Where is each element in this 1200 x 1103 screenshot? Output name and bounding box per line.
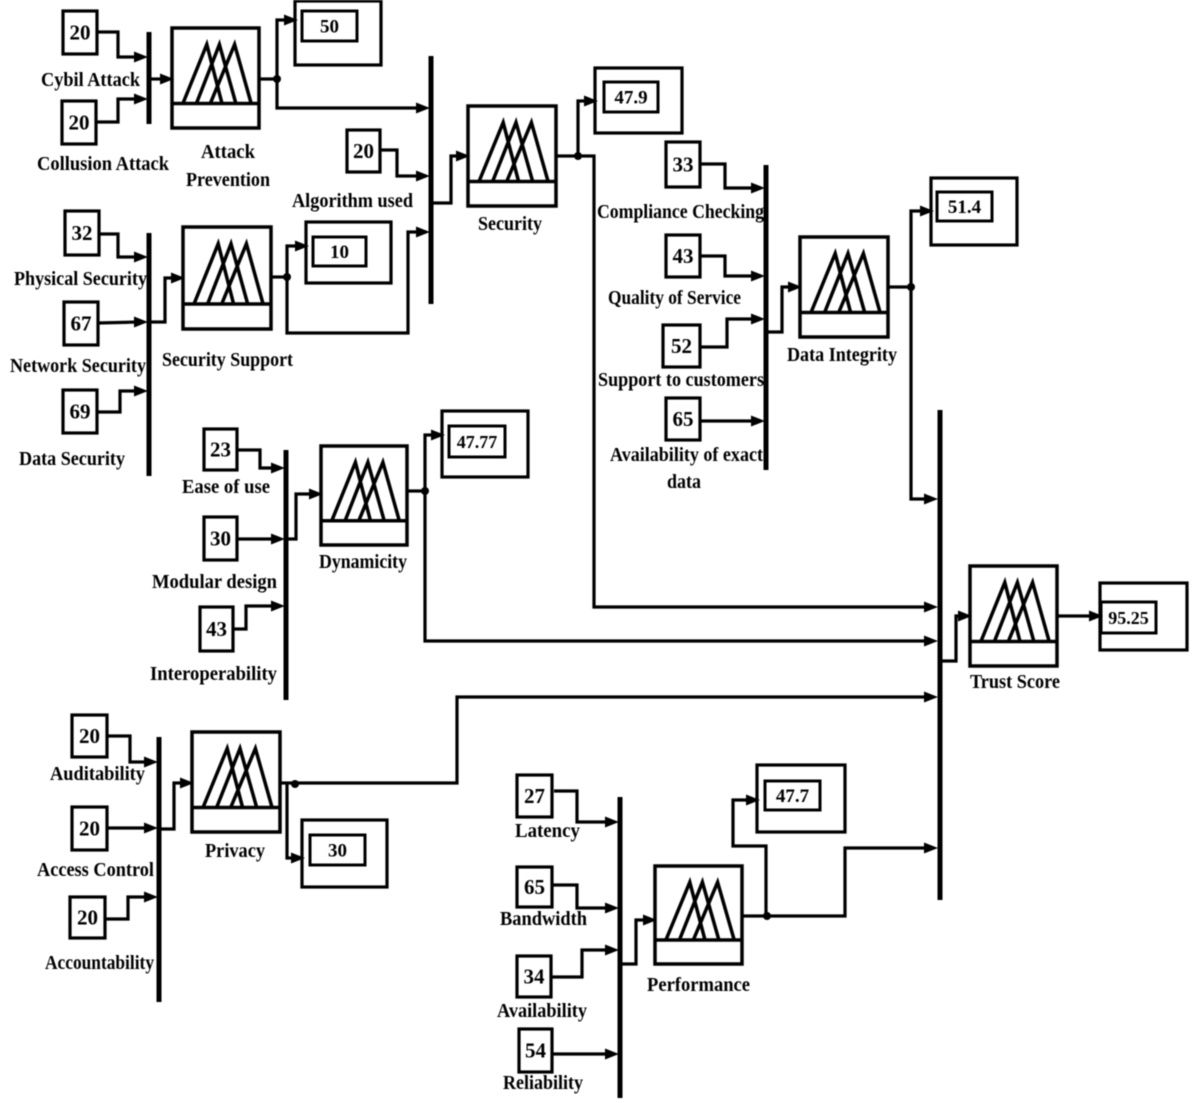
svg-text:10: 10 (330, 242, 349, 263)
wire: 34 Availability to mux (551, 950, 609, 977)
svg-text:Privacy: Privacy (205, 840, 265, 862)
svg-text:Accountability: Accountability (45, 952, 154, 974)
input box 69 (Data Security) (63, 390, 97, 433)
wire: Data Integrity to Trust Score mux (911, 287, 928, 499)
junction: Performance output (763, 912, 771, 920)
input box 54 (Reliability) (519, 1029, 552, 1072)
svg-text:Performance: Performance (647, 974, 750, 996)
svg-text:27: 27 (524, 784, 545, 808)
wire: Privacy output (280, 781, 295, 784)
svg-text:34: 34 (524, 965, 546, 989)
svg-text:Support to customers: Support to customers (598, 369, 764, 391)
fuzzy inference block: Dynamicity U5 (321, 446, 407, 545)
wire: Dynamicity output (407, 489, 425, 492)
svg-text:32: 32 (72, 221, 93, 245)
wire: mux to Security Support (151, 278, 175, 322)
wire: 65 Availability of exact data to mux (700, 419, 755, 422)
junction: Data Integrity output (907, 283, 915, 291)
svg-text:Prevention: Prevention (186, 169, 270, 191)
svg-text:Latency: Latency (515, 820, 580, 842)
svg-text:43: 43 (206, 617, 227, 641)
display box 10 (Security Support output) (306, 222, 391, 283)
wire: Trust Score to display 95.25 (1057, 614, 1093, 617)
wire: to display 50 (277, 20, 288, 79)
mux bar: Security inputs (429, 56, 434, 304)
wire: mux to Performance (622, 920, 647, 964)
fuzzy inference block: Privacy U6 (192, 732, 280, 832)
display box 47.7 (Performance output) (757, 765, 845, 832)
junction: Security output (574, 152, 582, 160)
wire: to display 10 (287, 246, 299, 277)
svg-text:Compliance Checking: Compliance Checking (597, 201, 764, 223)
wire: 20 Access Control to mux (107, 826, 148, 829)
wire: Trust Score mux to Trust Score block (941, 616, 962, 661)
svg-text:Access Control: Access Control (37, 859, 154, 881)
svg-text:Reliability: Reliability (503, 1072, 583, 1094)
wire: mux to Dynamicity (288, 494, 313, 539)
svg-text:69: 69 (70, 400, 91, 424)
svg-text:50: 50 (320, 17, 339, 38)
wire: 65 Bandwidth to mux (553, 885, 609, 908)
display box 30 (Privacy output) (302, 820, 387, 887)
wire: Security to Trust Score mux (578, 156, 928, 607)
mux bar: Data Integrity inputs (764, 165, 769, 470)
svg-text:Modular design: Modular design (152, 571, 277, 593)
wire: 23 Ease of use to mux (237, 450, 275, 468)
svg-text:47.9: 47.9 (614, 88, 647, 109)
display box 47.77 (Dynamicity output) (442, 411, 528, 477)
input box 20 (Auditability) (72, 715, 107, 757)
input box 67 (Network Security) (64, 302, 98, 345)
svg-text:51.4: 51.4 (948, 197, 982, 218)
mux bar: Trust Score inputs (938, 410, 943, 900)
svg-text:23: 23 (210, 438, 231, 462)
wire: 67 Network Security to mux (98, 322, 138, 323)
wire: Privacy to Trust Score mux (295, 697, 928, 783)
wire: 20 Algorithm used to Security mux (380, 150, 420, 176)
wire: Attack Prevention output (259, 77, 277, 80)
svg-text:20: 20 (353, 139, 374, 163)
wire: 20 Collusion Attack to mux (96, 99, 138, 122)
display box 47.9 (Security output) (595, 68, 682, 133)
wire: mux to Privacy (160, 783, 184, 829)
svg-text:Ease of use: Ease of use (182, 476, 270, 498)
svg-text:data: data (667, 471, 701, 493)
wire: Performance to Trust Score mux (767, 848, 928, 916)
wire: 30 Modular design to mux (237, 537, 275, 540)
wire: Data Integrity output (888, 285, 911, 288)
junction: Privacy output (291, 780, 299, 788)
wire: to display 47.7 (733, 800, 766, 914)
svg-text:Data Security: Data Security (19, 448, 125, 470)
input box 33 (Compliance Checking) (666, 142, 700, 187)
input box 43 (Quality of Service) (666, 235, 700, 277)
svg-text:Availability of exact: Availability of exact (610, 444, 763, 466)
svg-text:67: 67 (71, 312, 92, 336)
mux bar: Security Support inputs (147, 233, 152, 476)
input box 65 (Availability of exact data) (666, 398, 700, 440)
wire: to display 47.77 (425, 435, 435, 491)
input box 34 (Availability) (517, 956, 551, 997)
wire: 20 Auditability to mux (107, 736, 148, 762)
svg-text:Physical Security: Physical Security (14, 268, 147, 290)
svg-text:33: 33 (673, 153, 694, 177)
wire: 54 Reliability to mux (552, 1052, 609, 1055)
svg-text:54: 54 (525, 1039, 547, 1063)
fuzzy inference block: Data Integrity U4 (800, 237, 888, 337)
mux bar: Attack Prevention inputs (147, 32, 152, 124)
wire: Performance output (742, 914, 767, 917)
svg-text:Availability: Availability (497, 1000, 587, 1022)
svg-text:Cybil Attack: Cybil Attack (41, 69, 141, 91)
wire: 20 Cybil Attack to mux (97, 32, 138, 57)
svg-text:65: 65 (673, 407, 694, 431)
junction: Attack Prevention output (273, 75, 281, 83)
svg-text:95.25: 95.25 (1108, 608, 1149, 628)
svg-text:30: 30 (328, 841, 347, 862)
svg-text:Trust Score: Trust Score (970, 671, 1060, 693)
svg-text:20: 20 (79, 817, 100, 841)
svg-text:Interoperability: Interoperability (150, 663, 277, 685)
wire: Security output (556, 154, 578, 157)
fuzzy inference block: Security U3 (468, 106, 556, 206)
mux bar: Performance inputs (618, 797, 623, 1098)
input box 20 (Cybil Attack) (63, 11, 97, 54)
mux bar: Dynamicity inputs (284, 450, 289, 700)
junction: Dynamicity output (421, 487, 429, 495)
input box 20 (Algorithm used) (347, 130, 380, 172)
wire: Security Support output (271, 275, 287, 278)
svg-text:Collusion Attack: Collusion Attack (37, 153, 170, 175)
input box 20 (Access Control) (72, 807, 107, 850)
display box 50 (Attack Prevention output) (295, 1, 381, 65)
display box 51.4 (Data Integrity output) (931, 178, 1017, 245)
input box 27 (Latency) (517, 775, 552, 817)
wire: 20 Accountability to mux (105, 897, 148, 919)
svg-text:43: 43 (673, 244, 694, 268)
svg-text:47.77: 47.77 (457, 432, 498, 452)
svg-text:Dynamicity: Dynamicity (319, 551, 407, 573)
wire: Security Support to Security mux (287, 232, 420, 333)
svg-text:20: 20 (69, 111, 90, 135)
fuzzy inference block: Attack Prevention U1 (172, 28, 259, 128)
fuzzy inference block: Performance U7 (655, 866, 742, 964)
wire: 43 Quality of Service to mux (700, 256, 755, 276)
svg-text:Bandwidth: Bandwidth (500, 908, 587, 930)
fuzzy inference block: Trust Score U8 (970, 566, 1057, 666)
wire: to display 51.4 (911, 211, 924, 287)
input box 32 (Physical Security) (65, 211, 99, 255)
input box 43 (Interoperability) (200, 607, 233, 651)
input box 23 (Ease of use) (204, 429, 237, 470)
wire: mux to Data Integrity (768, 287, 792, 332)
svg-text:47.7: 47.7 (776, 786, 810, 807)
wire: 43 Interoperability to mux (233, 606, 275, 629)
input box 52 (Support to customers) (663, 325, 700, 367)
wire: mux to Attack Prevention (151, 77, 164, 80)
input box 20 (Collusion Attack) (62, 101, 96, 144)
mux bar: Privacy inputs (157, 737, 162, 1002)
wire: 32 Physical Security to mux (99, 234, 138, 257)
svg-text:Quality of Service: Quality of Service (608, 287, 741, 309)
svg-text:20: 20 (79, 724, 100, 748)
svg-text:Data Integrity: Data Integrity (787, 344, 897, 366)
fuzzy inference block: Security Support U2 (183, 227, 271, 329)
svg-text:30: 30 (210, 527, 231, 551)
svg-text:Auditability: Auditability (50, 763, 145, 785)
wire: to display 30 (287, 784, 295, 858)
input box 65 (Bandwidth) (517, 867, 552, 907)
wire: 33 Compliance Checking to mux (700, 164, 755, 188)
svg-text:Attack: Attack (201, 141, 256, 163)
svg-text:Algorithm used: Algorithm used (292, 190, 413, 212)
wire: 27 Latency to mux (554, 791, 609, 822)
svg-text:20: 20 (77, 906, 98, 930)
wire: Security mux to Security block (433, 156, 460, 203)
svg-text:20: 20 (70, 21, 91, 45)
svg-text:Security Support: Security Support (162, 349, 293, 371)
wire: 52 Support to customers to mux (700, 319, 755, 347)
input box 30 (Modular design) (204, 517, 237, 560)
junction: Security Support output (283, 273, 291, 281)
svg-text:Network Security: Network Security (10, 355, 146, 377)
wire: 69 Data Security to mux (97, 391, 138, 412)
wire: Dynamicity to Trust Score mux (425, 491, 928, 641)
svg-text:Security: Security (478, 213, 542, 235)
display box 95.25 (Trust Score output) (1100, 583, 1187, 650)
input box 20 (Accountability) (70, 897, 105, 938)
svg-text:52: 52 (671, 334, 692, 358)
wire: Attack Prevention to Security mux (277, 79, 420, 108)
wire: to display 47.9 (578, 101, 588, 156)
svg-text:65: 65 (524, 875, 545, 899)
